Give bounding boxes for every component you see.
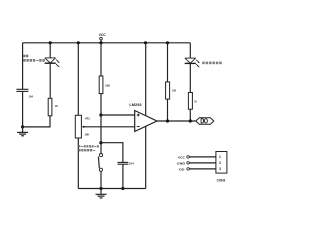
pin + mark (137, 114, 140, 127)
node junction left (21, 125, 24, 128)
wire plus input (101, 114, 135, 116)
net tag DO (196, 118, 214, 124)
wire resistor R1 bottom to node (23, 116, 50, 127)
svg-text:2: 2 (219, 161, 221, 165)
wire cap to ground node (22, 92, 24, 127)
op-amp U1 LM293 (135, 111, 157, 132)
svg-text:10K: 10K (85, 133, 90, 137)
svg-text:LM293: LM293 (129, 103, 141, 107)
LED D1 power indicator (45, 58, 60, 67)
switch SW1 NC (98, 154, 102, 172)
ground bottom (96, 189, 107, 198)
wire output (157, 120, 196, 122)
pin 3 (187, 168, 216, 171)
svg-text:104: 104 (29, 95, 34, 99)
label switch indicator (スイッチ表示 drawn as glyph blobs) (202, 62, 222, 65)
svg-text:1: 1 (219, 155, 221, 159)
node B cap junction (99, 141, 102, 144)
svg-text:10K: 10K (105, 83, 111, 87)
wire wiper to minus input (84, 126, 135, 128)
node A plus-input junction (99, 113, 102, 116)
wire VR1 bottom to bottom rail (77, 138, 79, 189)
wire bottom rail (78, 188, 145, 190)
wire switch to bottom rail (100, 172, 102, 189)
label NC sensor (ノーマルクローズ / 検知センサー drawn as glyph blobs) (78, 145, 99, 147)
resistor R3 10K pull-up (166, 82, 170, 99)
node rail op-amp V+ (144, 41, 147, 44)
resistor R2 10K (99, 76, 103, 94)
svg-text:CON3: CON3 (217, 178, 226, 182)
svg-text:1K: 1K (55, 104, 59, 108)
power VCC symbol (100, 37, 103, 43)
node rail-R2 VCC (99, 41, 102, 44)
wire op-amp V+ (145, 43, 147, 116)
label power indicator (電源 / インジケータ drawn as glyph blobs) (23, 55, 28, 58)
node output R4 (189, 119, 192, 122)
svg-text:10K: 10K (172, 88, 176, 92)
wire op-amp V- (145, 126, 147, 188)
capacitor C2 104 (118, 162, 129, 164)
wire rail to R2 (100, 43, 102, 76)
wire C2 to bottom rail (122, 164, 124, 188)
svg-text:VR1: VR1 (85, 116, 90, 120)
svg-text:DO: DO (179, 167, 185, 171)
ground left (17, 127, 28, 136)
svg-text:VCC: VCC (178, 156, 186, 160)
node rail-LED1 (49, 41, 52, 44)
wire LED1 to R1 (49, 63, 51, 98)
wire R4 to output node (189, 109, 191, 121)
node output R3 (166, 119, 169, 122)
connector CON3 (216, 152, 227, 174)
svg-text:104: 104 (129, 162, 134, 166)
wire rail to R3 (167, 43, 169, 82)
svg-text:3: 3 (219, 167, 221, 171)
wire rail to LED1 (49, 43, 51, 58)
node rail-VR1 (77, 41, 80, 44)
wire VCC top rail (23, 42, 191, 44)
wire node B to C2 (101, 143, 123, 163)
wire R3 to output node (167, 99, 169, 121)
wire rail to VR1 (77, 43, 79, 116)
svg-text:1K: 1K (194, 100, 197, 104)
wire R2 to switch (100, 94, 102, 154)
capacitor C1 104 (16, 89, 28, 91)
svg-text:VCC: VCC (99, 33, 107, 37)
potentiometer VR1 10K (75, 115, 81, 138)
pin 1 (187, 156, 216, 159)
LED D2 switch indicator (185, 58, 200, 67)
wire left branch down (22, 43, 24, 89)
pin - mark (137, 125, 140, 127)
node bottom ground (99, 187, 102, 190)
resistor R4 1K (188, 93, 192, 110)
wiper arrow VR1 (82, 126, 85, 128)
node rail-R3 (166, 41, 169, 44)
resistor R1 1K (48, 98, 52, 116)
wire rail to LED2 (189, 43, 191, 58)
svg-text:GND: GND (177, 161, 186, 165)
pin 2 (187, 162, 216, 165)
wire LED2 to R4 (189, 63, 191, 92)
node C2 bottom (121, 187, 124, 190)
